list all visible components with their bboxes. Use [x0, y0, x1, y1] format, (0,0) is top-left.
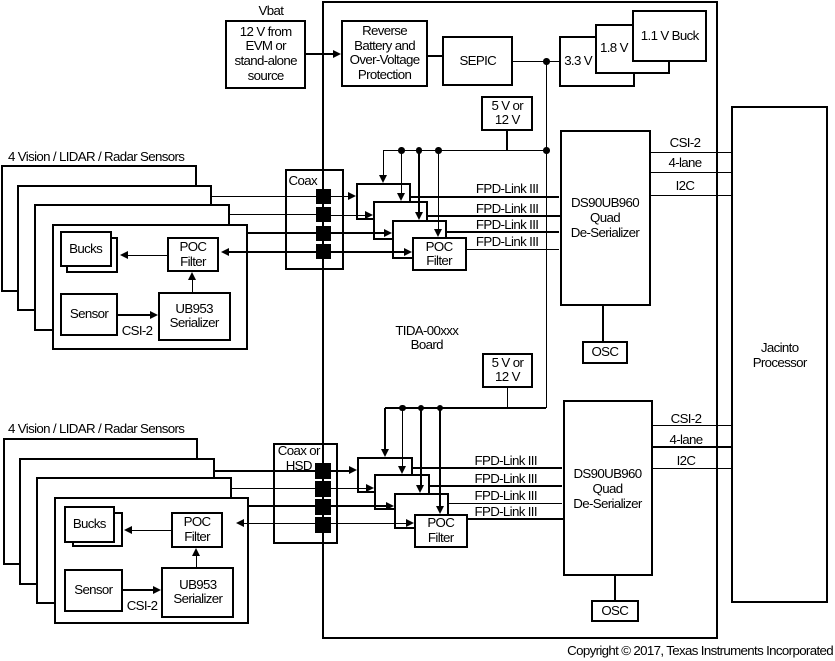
- arrowhead into filter4 top: [404, 248, 412, 256]
- arrowhead into filter4 bottom: [406, 519, 414, 527]
- poc filter box 2 bottom (unlabeled): [374, 474, 430, 510]
- wire FPD-link 3 top: [447, 231, 560, 233]
- block 5V or 12V top: [481, 96, 533, 132]
- copyright note: [567, 643, 833, 658]
- label FPD-Link III b1: [475, 453, 537, 468]
- block OSC top: [582, 341, 629, 363]
- wire coax to module POC top: [229, 251, 332, 253]
- label FPD-Link III t1: [476, 181, 538, 196]
- wire 5V bottom down: [507, 388, 509, 408]
- wire CSI-2 bottom: [653, 425, 732, 427]
- wire FPD-link 2 bottom: [430, 485, 563, 487]
- coax connector square 3 bottom: [315, 499, 331, 515]
- label FPD-Link III t3: [476, 217, 538, 232]
- coax or HSD connector box bottom: [273, 443, 338, 545]
- wire module1 to coax top: [212, 196, 318, 198]
- label FPD-Link III b4: [475, 504, 537, 519]
- block Sensor bottom: [64, 569, 123, 612]
- block OSC bottom: [591, 600, 639, 622]
- wire SEPIC to rails: [513, 61, 559, 63]
- sensor module box 1 (bottom stack, behind): [3, 438, 199, 565]
- label CSI-2 bottom: [616, 412, 756, 427]
- arrowhead into UB953 bottom: [153, 586, 161, 594]
- arrowhead into Bucks top: [120, 251, 128, 259]
- wire dist down to filter3 bottom: [420, 408, 422, 485]
- block POC filter in module bottom: [171, 512, 223, 548]
- block 1.1V buck rail: [632, 10, 707, 61]
- block Bucks shadow bottom: [72, 512, 123, 548]
- poc filter box 1 top (unlabeled): [356, 183, 411, 220]
- wire POC to Bucks bottom: [132, 530, 172, 532]
- wire coax to filter4 bottom: [331, 523, 406, 525]
- arrowhead into POC from UB953 bottom: [192, 548, 200, 556]
- arrowhead into filter2 top: [365, 211, 373, 219]
- poc filter box 3 bottom (unlabeled): [394, 493, 450, 529]
- block 3.3V rail: [559, 36, 635, 87]
- sensor module box 4 (bottom stack, front): [54, 497, 250, 624]
- arrowhead dist into filter3 bottom: [416, 485, 424, 493]
- block SEPIC: [442, 36, 513, 86]
- wire coax to filter2 top: [330, 215, 365, 217]
- arrowhead dist into filter2 top: [397, 193, 405, 201]
- wire POC to Bucks top: [128, 255, 167, 257]
- wire dist down to filter3 top: [418, 151, 420, 212]
- wire coax to filter4 top: [331, 251, 404, 253]
- wire deserializer to OSC bottom: [614, 576, 616, 600]
- wire FPD-link 1 bottom: [413, 467, 563, 469]
- wire 5V top down: [506, 131, 508, 150]
- label FPD-Link III t4: [476, 234, 538, 249]
- wire module3 to coax top: [248, 232, 319, 234]
- block UB953 serializer top: [158, 292, 231, 342]
- label I2C bottom: [616, 454, 756, 469]
- arrowhead dist into filter4 bottom: [436, 506, 444, 514]
- arrowhead dist into filter2 bottom: [398, 466, 406, 474]
- label 4 vision sensors top: [8, 149, 184, 164]
- wire module2 to coax top: [230, 214, 318, 216]
- wire module2 to coax bottom: [232, 488, 318, 490]
- wire dist down to filter4 top: [438, 151, 440, 230]
- wire top power distribution: [383, 150, 546, 152]
- block Bucks top: [60, 231, 112, 267]
- wire FPD-link 2 top: [428, 215, 560, 217]
- label Coax or HSD: [274, 444, 324, 473]
- arrowhead into filter2 bottom: [366, 484, 374, 492]
- block reverse battery protection: [341, 20, 428, 87]
- wire deserializer to OSC top: [602, 305, 604, 341]
- label 4-lane bottom: [616, 433, 756, 448]
- arrowhead into module POC top: [221, 248, 229, 256]
- poc filter box 1 bottom (unlabeled): [357, 457, 413, 493]
- arrowhead into filter3 top: [384, 229, 392, 237]
- junction dot dist bottom 1: [399, 405, 406, 412]
- wire 4-lane top: [651, 172, 732, 174]
- wire dist down to filter1 top: [383, 151, 385, 175]
- wire FPD-link 3 bottom: [449, 503, 562, 505]
- label Coax: [289, 173, 317, 188]
- junction dot dist top 2: [416, 147, 423, 154]
- junction dot dist bottom 3: [437, 405, 444, 412]
- wire coax to module arrow bottom: [244, 523, 331, 525]
- block Bucks shadow top: [66, 237, 118, 273]
- block 1.8V rail: [595, 24, 670, 74]
- junction dot dist bottom 2: [418, 405, 425, 412]
- poc filter box 2 top (unlabeled): [373, 201, 428, 240]
- coax connector square 2 bottom: [315, 481, 331, 497]
- label Vbat: [259, 3, 284, 18]
- label FPD-Link III b3: [475, 488, 537, 503]
- sensor module box 3 (top stack, behind): [34, 204, 230, 331]
- coax connector square 4 top: [316, 244, 331, 259]
- wire FPD-link 4 top: [467, 249, 560, 251]
- block Jacinto processor: [731, 106, 828, 603]
- label CSI-2 top: [615, 136, 755, 151]
- sensor module box 2 (top stack, behind): [17, 185, 213, 312]
- label CSI-2 module top: [122, 323, 153, 338]
- wire dist down to filter2 top: [401, 151, 403, 193]
- main board outline TIDA-00xxx: [322, 1, 718, 639]
- arrowhead into POC from UB953 top: [188, 272, 196, 280]
- arrowhead dist into filter1 bottom: [381, 449, 389, 457]
- block Bucks bottom: [64, 506, 115, 543]
- arrowhead dist into filter1 top: [379, 175, 387, 183]
- coax connector square 1 bottom: [315, 463, 331, 479]
- wire UB953 to POC top: [192, 280, 194, 291]
- coax connector square 3 top: [316, 226, 331, 241]
- poc filter box 3 top (unlabeled): [392, 220, 447, 259]
- arrowhead into filter3 bottom: [386, 502, 394, 510]
- wire 4-lane bottom: [653, 446, 732, 448]
- wire sensor to UB953 top: [118, 314, 149, 316]
- block POC filter top (board): [412, 237, 467, 271]
- block UB953 serializer bottom: [161, 567, 234, 618]
- junction dot distribution-rail top: [543, 147, 550, 154]
- block Sensor top: [60, 293, 119, 335]
- arrowhead into filter1 bottom: [349, 466, 357, 474]
- wire dist down to filter2 bottom: [402, 408, 404, 466]
- label 4 vision sensors bottom: [8, 421, 184, 436]
- label FPD-Link III t2: [476, 201, 538, 216]
- wire I2C bottom: [653, 468, 732, 470]
- wire FPD-link 4 bottom: [468, 518, 563, 520]
- wire sensor to UB953 bottom: [123, 589, 154, 591]
- wire coax to filter3 bottom: [331, 505, 386, 507]
- wire UB953 to POC bottom: [196, 556, 198, 567]
- wire module1 to coax bottom: [215, 470, 319, 472]
- coax connector square 4 bottom: [315, 517, 331, 533]
- wire main 12V vertical rail: [546, 62, 548, 408]
- arrowhead into protection: [333, 50, 341, 58]
- wire CSI-2 top: [651, 152, 732, 154]
- wire bottom power distribution: [385, 407, 546, 409]
- block DS90UB960 deserializer bottom: [563, 400, 653, 576]
- block 12V source: [225, 20, 306, 89]
- sensor module box 2 (bottom stack, behind): [19, 458, 215, 585]
- wire 12V to protection: [306, 53, 333, 55]
- coax connector box top: [285, 169, 344, 271]
- coax connector square 1 top: [316, 189, 331, 204]
- wire coax to filter1 bottom: [331, 470, 349, 472]
- junction dot dist top 1: [398, 147, 405, 154]
- wire coax to filter3 top: [330, 232, 384, 234]
- arrowhead toward module POC bottom: [236, 519, 244, 527]
- wire protection to SEPIC: [428, 55, 442, 57]
- wire FPD-link 1 top: [411, 196, 560, 198]
- junction dot SEPIC output: [543, 58, 550, 65]
- block DS90UB960 deserializer top: [560, 130, 651, 306]
- sensor module box 4 (top stack, front): [52, 224, 248, 351]
- wire module3 to coax bottom: [249, 505, 318, 507]
- block POC filter in module top: [167, 237, 219, 272]
- wire dist down to filter1 bottom: [384, 408, 386, 449]
- arrowhead dist into filter3 top: [415, 212, 423, 220]
- sensor module box 3 (bottom stack, behind): [36, 477, 232, 604]
- coax connector square 2 top: [316, 207, 331, 222]
- label CSI-2 module bottom: [127, 598, 158, 613]
- arrowhead into UB953 top: [150, 311, 158, 319]
- wire coax to filter2 bottom: [331, 488, 367, 490]
- junction dot dist top 3: [435, 147, 442, 154]
- label TIDA-00xxx Board: [357, 324, 497, 354]
- wire I2C top: [651, 195, 732, 197]
- label FPD-Link III b2: [475, 471, 537, 486]
- wire coax to filter1 top: [330, 196, 348, 198]
- label I2C top: [615, 179, 755, 194]
- label 4-lane top: [615, 156, 755, 171]
- arrowhead into Bucks bottom: [124, 526, 132, 534]
- wire dist down to filter4 bottom: [439, 408, 441, 506]
- arrowhead dist into filter4 top: [434, 229, 442, 237]
- block 5V or 12V bottom: [482, 353, 534, 389]
- sensor module box 1 (top stack, behind): [1, 165, 197, 292]
- block POC filter bottom (board): [414, 514, 469, 548]
- arrowhead into filter1 top: [348, 192, 356, 200]
